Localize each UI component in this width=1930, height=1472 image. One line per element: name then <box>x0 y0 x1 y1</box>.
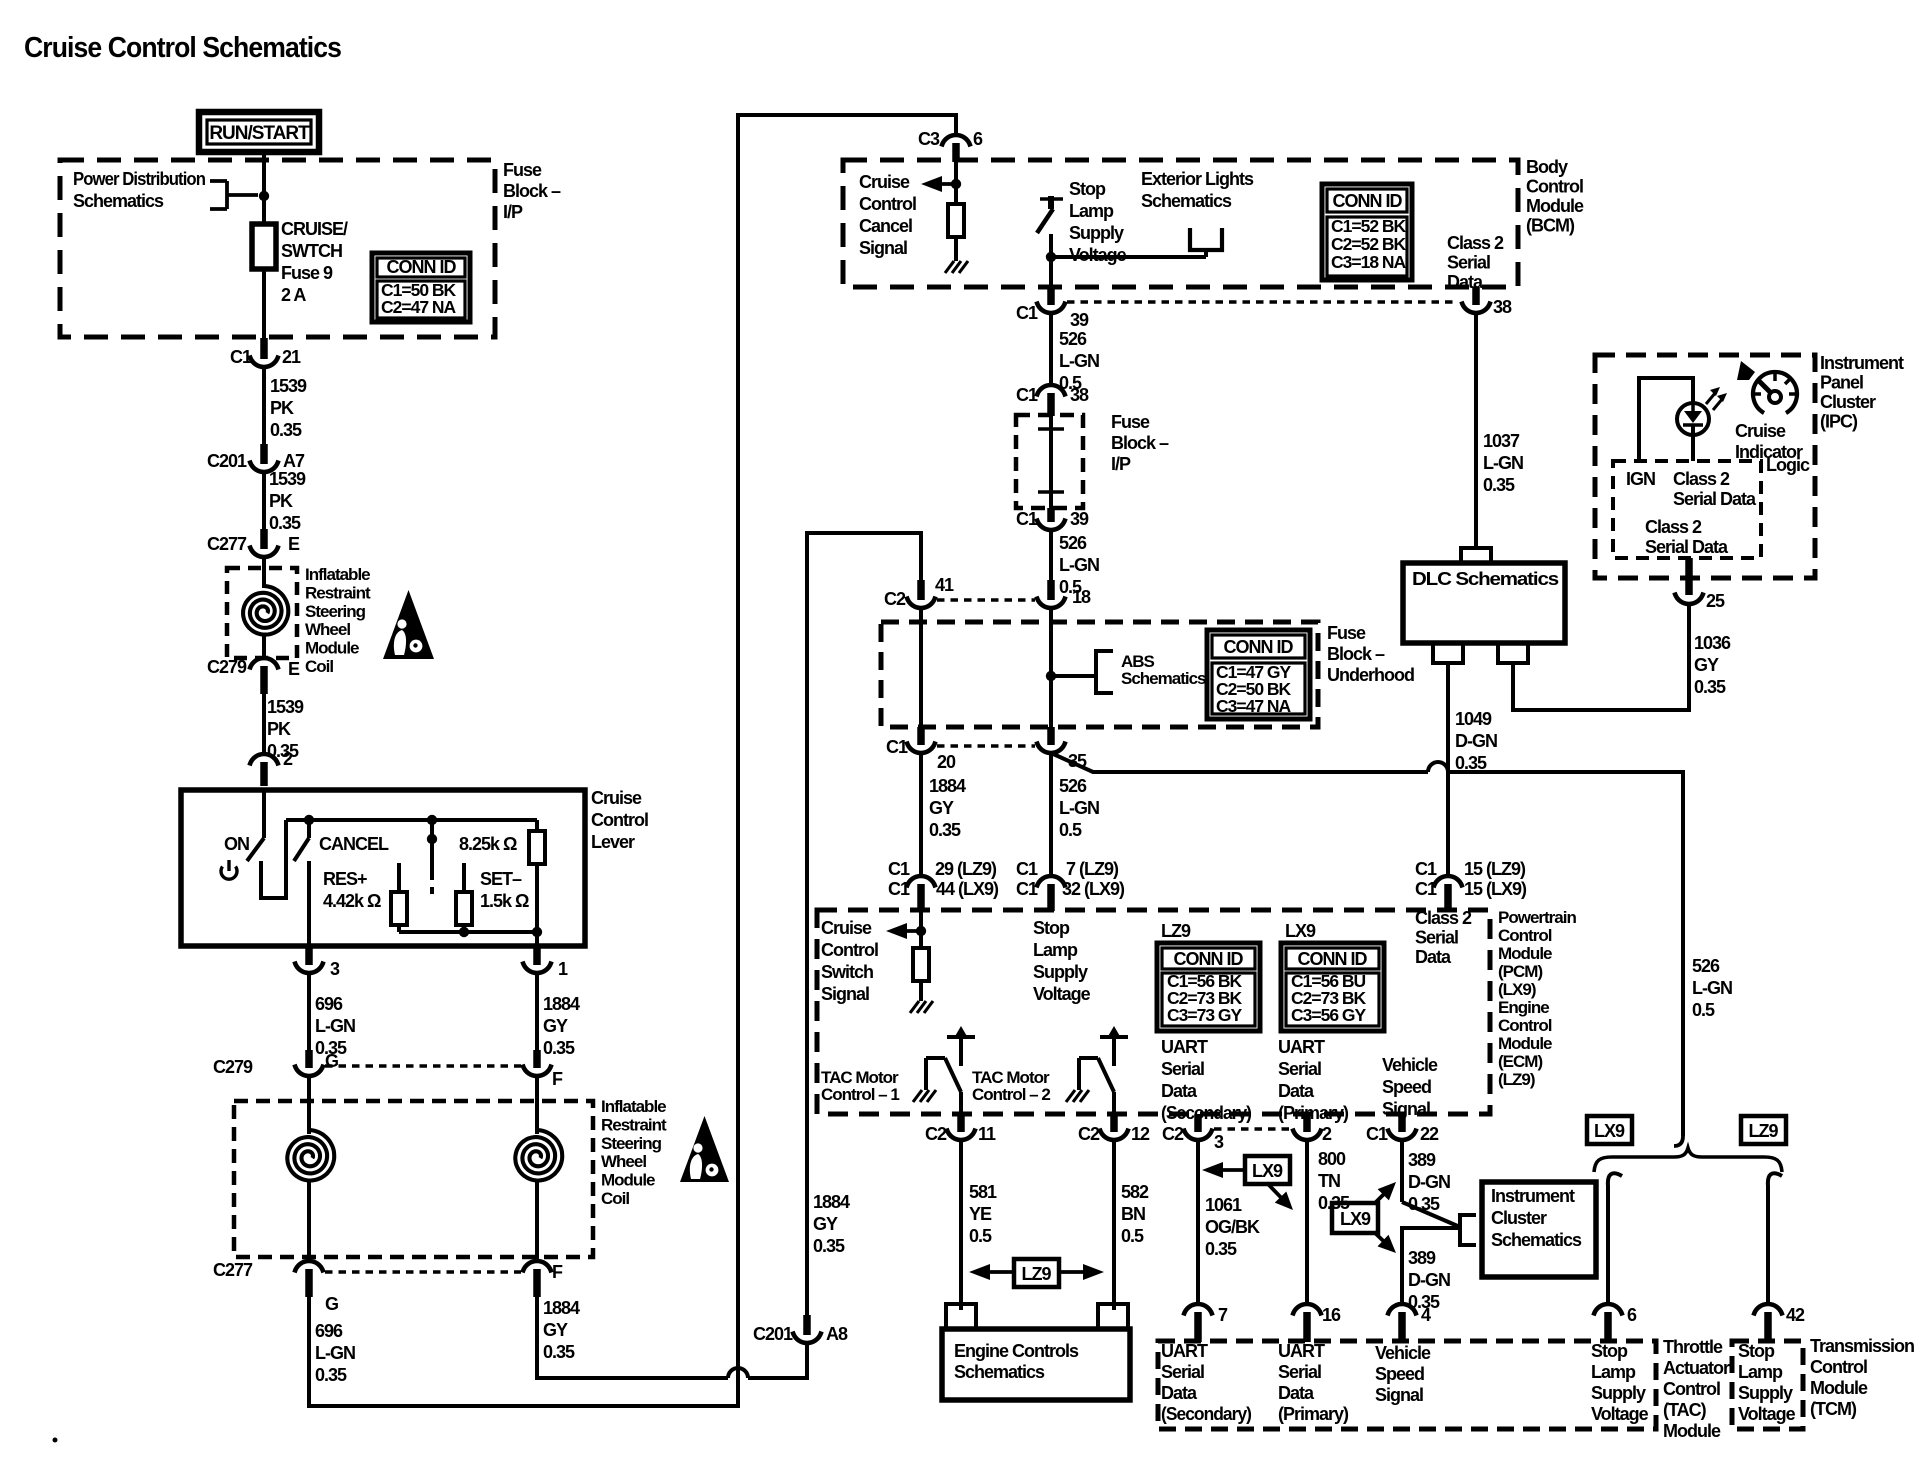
svg-text:1061: 1061 <box>1205 1195 1242 1215</box>
svg-text:PK: PK <box>267 719 291 739</box>
svg-text:Coil: Coil <box>601 1189 629 1208</box>
label Vehicle Speed Signal PCM <box>1382 1055 1438 1119</box>
wire 1061 OG/BK <box>1196 1139 1200 1305</box>
label 1539 PK 0.35 (3) <box>267 697 304 761</box>
wire 526 to PCM <box>1049 752 1053 877</box>
svg-text:C3=73 GY: C3=73 GY <box>1167 1005 1243 1025</box>
label 696 L-GN 0.35 lower <box>315 1321 355 1385</box>
svg-text:Control – 2: Control – 2 <box>972 1085 1050 1104</box>
connector 38 <box>1462 287 1513 317</box>
connector C1 20 <box>886 727 956 772</box>
wire IGN loop <box>1639 378 1693 461</box>
svg-text:Cruise Control Schematics: Cruise Control Schematics <box>24 32 341 64</box>
svg-text:E: E <box>288 659 300 679</box>
coil spiral 2 right <box>515 1130 562 1181</box>
wire RUN/START to fuse <box>262 152 266 224</box>
svg-text:Cancel: Cancel <box>859 216 912 236</box>
connector 3 <box>295 946 341 979</box>
label Cruise Control Cancel Signal <box>859 172 916 258</box>
connector 35 <box>1037 727 1088 771</box>
svg-text:Underhood: Underhood <box>1327 665 1414 685</box>
svg-text:1539: 1539 <box>267 697 304 717</box>
svg-text:Control: Control <box>1810 1357 1867 1377</box>
node junction power dist <box>259 191 269 201</box>
svg-text:UART: UART <box>1278 1037 1325 1057</box>
connector 2 <box>250 749 294 786</box>
svg-text:Serial: Serial <box>1161 1362 1204 1382</box>
svg-text:Serial: Serial <box>1278 1059 1321 1079</box>
svg-text:Schematics: Schematics <box>1141 191 1232 211</box>
svg-text:LZ9: LZ9 <box>1021 1264 1051 1284</box>
svg-text:C1: C1 <box>1016 879 1038 899</box>
connector C3 6 <box>918 129 983 162</box>
svg-text:C1: C1 <box>1415 859 1437 879</box>
wire 800 TN <box>1305 1139 1309 1305</box>
label Body Control Module BCM <box>1526 157 1584 236</box>
connector 7 <box>1184 1304 1229 1342</box>
svg-text:DLC Schematics: DLC Schematics <box>1412 569 1559 589</box>
svg-text:32 (LX9): 32 (LX9) <box>1062 879 1125 899</box>
svg-text:Serial Data: Serial Data <box>1645 537 1729 557</box>
connector C201 A8 <box>753 1315 848 1344</box>
label 581 YE 0.5 <box>969 1182 997 1246</box>
svg-text:Schematics: Schematics <box>1491 1230 1582 1250</box>
svg-text:(PCM): (PCM) <box>1498 962 1542 981</box>
svg-text:18: 18 <box>1072 587 1091 607</box>
svg-text:GY: GY <box>929 798 954 818</box>
wire lever input <box>262 790 266 838</box>
svg-text:C3=18 NA: C3=18 NA <box>1331 252 1407 272</box>
svg-text:800: 800 <box>1318 1149 1346 1169</box>
engine controls schematics box <box>942 1304 1130 1400</box>
svg-text:C1: C1 <box>1016 509 1038 529</box>
svg-text:0.35: 0.35 <box>1483 475 1515 495</box>
svg-text:Module: Module <box>601 1171 655 1190</box>
svg-text:0.35: 0.35 <box>813 1236 845 1256</box>
wire link C277 dotted <box>325 1270 521 1274</box>
svg-text:0.35: 0.35 <box>1455 753 1487 773</box>
connector C1 C1 7 32 <box>1016 859 1125 911</box>
svg-text:Serial: Serial <box>1447 253 1490 273</box>
label Stop Lamp Supply Voltage PCM <box>1033 918 1091 1004</box>
svg-text:581: 581 <box>969 1182 997 1202</box>
arrow cruise switch signal <box>886 923 923 939</box>
svg-text:PK: PK <box>269 491 293 511</box>
svg-text:G: G <box>325 1051 338 1071</box>
label IGN <box>1626 469 1655 489</box>
label 1036 GY 0.35 <box>1694 633 1731 697</box>
label TAC Motor Control 2 <box>972 1068 1050 1104</box>
wire lever top rail <box>286 818 537 822</box>
svg-text:Lamp: Lamp <box>1069 201 1114 221</box>
svg-text:2: 2 <box>283 749 293 769</box>
svg-text:Class 2: Class 2 <box>1645 517 1702 537</box>
switch stop lamp <box>1037 196 1063 233</box>
connector C279 E <box>207 657 300 694</box>
label 1049 D-GN 0.35 <box>1455 709 1497 773</box>
svg-text:Cruise: Cruise <box>1735 421 1786 441</box>
label Throttle Actuator Control TAC Module <box>1663 1337 1730 1441</box>
label 1539 PK 0.35 (2) <box>269 469 306 533</box>
connector C277 E <box>207 529 300 557</box>
led cruise indicator <box>1677 403 1709 461</box>
svg-text:TN: TN <box>1318 1171 1340 1191</box>
svg-text:Schematics: Schematics <box>954 1362 1045 1382</box>
label UART Serial Data Secondary TAC <box>1161 1341 1252 1424</box>
svg-text:Body: Body <box>1526 157 1568 177</box>
label LZ9 <box>1161 921 1191 941</box>
svg-text:Inflatable: Inflatable <box>305 565 370 584</box>
svg-text:38: 38 <box>1070 385 1089 405</box>
label 1884 GY 0.35 (pcm) <box>929 776 966 840</box>
svg-text:F: F <box>552 1069 563 1089</box>
svg-text:39: 39 <box>1070 509 1089 529</box>
label 389 D-GN 0.35 lower <box>1408 1248 1450 1312</box>
conn-id box LX9 <box>1281 943 1384 1031</box>
wire link 41-18 dotted <box>937 598 1035 602</box>
label Exterior Lights Schematics <box>1141 169 1254 211</box>
svg-text:C1=52 BK: C1=52 BK <box>1331 216 1407 236</box>
svg-text:Data: Data <box>1278 1383 1315 1403</box>
svg-text:Voltage: Voltage <box>1738 1404 1796 1424</box>
bracket ABS <box>1096 651 1113 693</box>
connector C279 G <box>213 1050 338 1077</box>
svg-text:Cruise: Cruise <box>859 172 910 192</box>
svg-text:CONN ID: CONN ID <box>1333 191 1403 211</box>
svg-text:Signal: Signal <box>821 984 869 1004</box>
svg-text:L-GN: L-GN <box>1692 978 1732 998</box>
label RES+ 4.42k <box>323 869 381 911</box>
wire 1539 PK seg1 <box>262 366 266 446</box>
label Cruise Control Lever <box>591 788 648 852</box>
label Class 2 Serial Data ipc2 <box>1645 517 1729 557</box>
airbag coil box 1 <box>227 568 297 658</box>
svg-text:0.35: 0.35 <box>270 420 302 440</box>
wire 696 upper <box>307 972 311 1052</box>
svg-text:GY: GY <box>543 1320 568 1340</box>
svg-text:389: 389 <box>1408 1248 1436 1268</box>
svg-text:Supply: Supply <box>1591 1383 1646 1403</box>
resistor RES 4.42k <box>391 863 407 932</box>
svg-text:Stop: Stop <box>1738 1341 1775 1361</box>
svg-text:C201: C201 <box>207 451 247 471</box>
svg-text:C277: C277 <box>213 1260 253 1280</box>
coil spiral 1 <box>243 586 288 635</box>
svg-text:CONN ID: CONN ID <box>1174 949 1244 969</box>
fuse block I/P small box <box>1016 415 1083 508</box>
label Instrument Panel Cluster IPC <box>1820 353 1904 432</box>
svg-text:Coil: Coil <box>305 657 333 676</box>
svg-text:Panel: Panel <box>1820 373 1863 393</box>
wire coil2 in right <box>535 1075 539 1134</box>
svg-text:526: 526 <box>1692 956 1720 976</box>
switch ON lever <box>247 838 264 861</box>
label Transmission Control Module TCM <box>1810 1336 1914 1419</box>
svg-text:389: 389 <box>1408 1150 1436 1170</box>
svg-text:C279: C279 <box>213 1057 253 1077</box>
svg-text:GY: GY <box>1694 655 1719 675</box>
wire 1539 PK seg2 <box>262 471 266 531</box>
label 582 BN 0.5 <box>1121 1182 1149 1246</box>
svg-text:Schematics: Schematics <box>73 191 164 211</box>
connector C1 22 <box>1366 1114 1439 1144</box>
svg-text:Fuse 9: Fuse 9 <box>281 263 333 283</box>
label Vehicle Speed Signal TAC <box>1375 1343 1431 1405</box>
svg-text:L-GN: L-GN <box>1059 798 1099 818</box>
led light arrows <box>1706 387 1727 410</box>
svg-text:(LX9): (LX9) <box>1498 980 1536 999</box>
svg-text:SET–: SET– <box>480 869 522 889</box>
svg-text:Steering: Steering <box>601 1134 662 1153</box>
svg-text:F: F <box>552 1262 563 1282</box>
connector C1 38 <box>1016 385 1089 416</box>
svg-text:44 (LX9): 44 (LX9) <box>936 879 999 899</box>
wire pin1 inside <box>535 932 539 946</box>
node ABS junction <box>1046 671 1056 681</box>
tac motor 2 symbol <box>1066 1026 1128 1114</box>
svg-text:Signal: Signal <box>859 238 907 258</box>
svg-text:42: 42 <box>1786 1305 1805 1325</box>
ground PCM switch <box>910 1001 933 1013</box>
connector C1 C1 15 15 <box>1415 859 1527 911</box>
svg-text:1884: 1884 <box>543 994 580 1014</box>
label Inflatable Restraint coil 2 <box>601 1097 667 1208</box>
switch CANCEL lever <box>294 820 309 861</box>
svg-text:38: 38 <box>1493 297 1512 317</box>
svg-text:0.35: 0.35 <box>1205 1239 1237 1259</box>
svg-text:C2: C2 <box>925 1124 947 1144</box>
label Fuse Block I/P small <box>1111 412 1169 474</box>
connector 18 <box>1037 580 1092 608</box>
svg-text:Module: Module <box>1810 1378 1868 1398</box>
wire 696 to BCM riser <box>309 115 956 1406</box>
svg-text:Module: Module <box>1498 944 1552 963</box>
label LZ9 box right <box>1741 1116 1786 1144</box>
label 696 L-GN 0.35 upper <box>315 994 355 1058</box>
label TAC Motor Control 1 <box>821 1068 899 1104</box>
svg-text:IGN: IGN <box>1626 469 1655 489</box>
label Stop Lamp Supply Voltage BCM <box>1069 179 1127 265</box>
svg-text:1049: 1049 <box>1455 709 1492 729</box>
wire 1884 upper <box>535 972 539 1052</box>
conn-id box underhood <box>1207 630 1310 719</box>
fuse block I/P box <box>60 160 495 337</box>
connector C1 21 <box>230 338 301 367</box>
svg-text:3: 3 <box>330 959 340 979</box>
svg-text:6: 6 <box>973 129 983 149</box>
svg-text:Lamp: Lamp <box>1591 1362 1636 1382</box>
svg-text:(ECM): (ECM) <box>1498 1052 1542 1071</box>
svg-text:(Secondary): (Secondary) <box>1161 1103 1252 1123</box>
svg-text:526: 526 <box>1059 329 1087 349</box>
svg-text:Speed: Speed <box>1375 1364 1424 1384</box>
wire link 39-38 dotted <box>1067 300 1458 304</box>
svg-text:Exterior Lights: Exterior Lights <box>1141 169 1254 189</box>
svg-text:E: E <box>288 534 300 554</box>
svg-text:RUN/START: RUN/START <box>209 123 310 144</box>
wire resistor bottom rail <box>399 930 537 934</box>
svg-text:0.5: 0.5 <box>969 1226 992 1246</box>
svg-text:Engine Controls: Engine Controls <box>954 1341 1079 1361</box>
svg-text:Serial Data: Serial Data <box>1673 489 1757 509</box>
svg-text:Control – 1: Control – 1 <box>821 1085 899 1104</box>
node rail dot set <box>459 927 469 937</box>
svg-text:GY: GY <box>543 1016 568 1036</box>
svg-text:Module: Module <box>1498 1034 1552 1053</box>
svg-text:12: 12 <box>1131 1124 1150 1144</box>
svg-text:Control: Control <box>1526 177 1583 197</box>
cruise control lever box <box>181 790 585 946</box>
connector C1 39 a <box>1016 287 1089 330</box>
node cruise switch junction <box>916 926 926 936</box>
bracket exterior lights <box>1190 228 1222 250</box>
label 1037 L-GN 0.35 <box>1483 431 1523 495</box>
svg-text:Instrument: Instrument <box>1820 353 1904 373</box>
svg-text:(TAC): (TAC) <box>1663 1400 1707 1420</box>
connector C2 41 <box>884 575 954 609</box>
svg-text:C1: C1 <box>1366 1124 1388 1144</box>
wire to exterior lights <box>1051 252 1206 257</box>
svg-text:Stop: Stop <box>1033 918 1070 938</box>
label 526 L-GN 0.5 (1) <box>1059 329 1099 393</box>
wire stop lamp down <box>1049 234 1053 287</box>
svg-text:CRUISE/: CRUISE/ <box>281 219 348 239</box>
label 389 D-GN 0.35 upper <box>1408 1150 1450 1214</box>
svg-text:GY: GY <box>813 1214 838 1234</box>
svg-text:Wheel: Wheel <box>601 1152 646 1171</box>
svg-text:Data: Data <box>1415 947 1452 967</box>
svg-text:Serial: Serial <box>1161 1059 1204 1079</box>
svg-text:3: 3 <box>1214 1132 1224 1152</box>
svg-text:C3=47 NA: C3=47 NA <box>1216 696 1292 716</box>
svg-text:CANCEL: CANCEL <box>319 834 389 854</box>
label Cruise Control Switch Signal <box>821 918 878 1004</box>
svg-text:C279: C279 <box>207 657 247 677</box>
svg-text:C1: C1 <box>1016 303 1038 323</box>
svg-text:C1: C1 <box>230 347 252 367</box>
svg-text:1539: 1539 <box>269 469 306 489</box>
svg-text:Fuse: Fuse <box>503 160 542 180</box>
wire 1037 L-GN <box>1474 312 1478 548</box>
connector 16 <box>1293 1304 1342 1342</box>
resistor 8.25k <box>529 820 545 932</box>
svg-text:L-GN: L-GN <box>1483 453 1523 473</box>
connector 25 <box>1675 558 1726 611</box>
svg-text:Data: Data <box>1278 1081 1315 1101</box>
svg-text:Module: Module <box>1526 196 1584 216</box>
svg-text:Restraint: Restraint <box>601 1115 667 1134</box>
svg-text:Steering: Steering <box>305 602 366 621</box>
label LZ9 flag <box>969 1259 1104 1287</box>
node stop lamp junction <box>1046 252 1056 262</box>
svg-text:6: 6 <box>1627 1305 1637 1325</box>
label LX9 flag 1 <box>1202 1156 1293 1210</box>
svg-text:PK: PK <box>270 398 294 418</box>
wire 389 D-GN upper <box>1402 1139 1460 1227</box>
wire 1049 D-GN <box>1446 663 1450 877</box>
svg-text:D-GN: D-GN <box>1408 1270 1450 1290</box>
transmission control module box <box>1732 1341 1803 1429</box>
svg-text:Engine: Engine <box>1498 998 1549 1017</box>
connector 2 pcm <box>1293 1114 1333 1144</box>
wire 18 through box <box>1049 607 1053 729</box>
svg-text:Schematics: Schematics <box>1121 669 1206 688</box>
svg-text:D-GN: D-GN <box>1455 731 1497 751</box>
label 800 TN 0.35 <box>1318 1149 1350 1213</box>
instrument cluster schematics box <box>1482 1182 1596 1277</box>
svg-text:Class 2: Class 2 <box>1447 233 1504 253</box>
label CANCEL <box>319 834 389 854</box>
svg-text:C1: C1 <box>1016 385 1038 405</box>
svg-text:Block –: Block – <box>503 181 561 201</box>
svg-text:15 (LZ9): 15 (LZ9) <box>1464 859 1526 879</box>
label 8.25k <box>459 834 517 854</box>
svg-text:0.35: 0.35 <box>1408 1194 1440 1214</box>
connector 6 <box>1594 1304 1638 1342</box>
powertrain control module box <box>817 910 1490 1114</box>
svg-text:15 (LX9): 15 (LX9) <box>1464 879 1527 899</box>
wire 41 through box <box>919 607 923 729</box>
label 1539 PK 0.35 (1) <box>270 376 307 440</box>
wire coil2 out left <box>307 1180 311 1262</box>
svg-text:C2=52 BK: C2=52 BK <box>1331 234 1407 254</box>
svg-text:Control: Control <box>1663 1379 1720 1399</box>
svg-text:526: 526 <box>1059 776 1087 796</box>
svg-text:Control: Control <box>821 940 878 960</box>
wire 1884 riser <box>807 533 921 1316</box>
svg-text:0.5: 0.5 <box>1692 1000 1715 1020</box>
svg-text:Control: Control <box>859 194 916 214</box>
svg-text:2 A: 2 A <box>281 285 306 305</box>
svg-text:L-GN: L-GN <box>1059 555 1099 575</box>
svg-text:C1: C1 <box>888 859 910 879</box>
svg-text:Voltage: Voltage <box>1033 984 1091 1004</box>
wire ON bottom contact <box>261 820 286 898</box>
label Power Distribution Schematics <box>73 169 205 211</box>
label 1884 GY 0.35 lower <box>543 1298 580 1362</box>
connector C2 3 <box>1162 1114 1224 1152</box>
svg-text:1036: 1036 <box>1694 633 1731 653</box>
resistor SET 1.5k <box>456 863 472 932</box>
svg-text:1037: 1037 <box>1483 431 1520 451</box>
svg-text:1539: 1539 <box>270 376 307 396</box>
svg-text:Cluster: Cluster <box>1491 1208 1547 1228</box>
svg-text:(Primary): (Primary) <box>1278 1103 1349 1123</box>
svg-text:UART: UART <box>1278 1341 1325 1361</box>
svg-text:1884: 1884 <box>543 1298 580 1318</box>
warning triangle 2 <box>680 1116 729 1182</box>
label Powertrain Control Module <box>1498 908 1576 1089</box>
svg-text:A8: A8 <box>826 1324 848 1344</box>
svg-text:526: 526 <box>1059 533 1087 553</box>
svg-text:16: 16 <box>1322 1305 1341 1325</box>
svg-text:11: 11 <box>978 1124 996 1144</box>
label Fuse Block I/P (right) <box>503 160 561 222</box>
svg-text:7: 7 <box>1218 1305 1228 1325</box>
wiper contact <box>427 820 437 894</box>
svg-text:C2=47 NA: C2=47 NA <box>381 297 457 317</box>
arrow cruise control cancel <box>921 176 958 192</box>
svg-text:CONN ID: CONN ID <box>1224 637 1294 657</box>
svg-text:Speed: Speed <box>1382 1077 1431 1097</box>
svg-text:OG/BK: OG/BK <box>1205 1217 1260 1237</box>
wire stop lamp to TAC <box>1608 1173 1622 1305</box>
node cancel junction <box>951 179 961 189</box>
conn-id box LZ9 <box>1157 943 1260 1031</box>
svg-text:1.5k Ω: 1.5k Ω <box>480 891 529 911</box>
svg-text:8.25k Ω: 8.25k Ω <box>459 834 517 854</box>
connector 4 <box>1388 1304 1432 1342</box>
